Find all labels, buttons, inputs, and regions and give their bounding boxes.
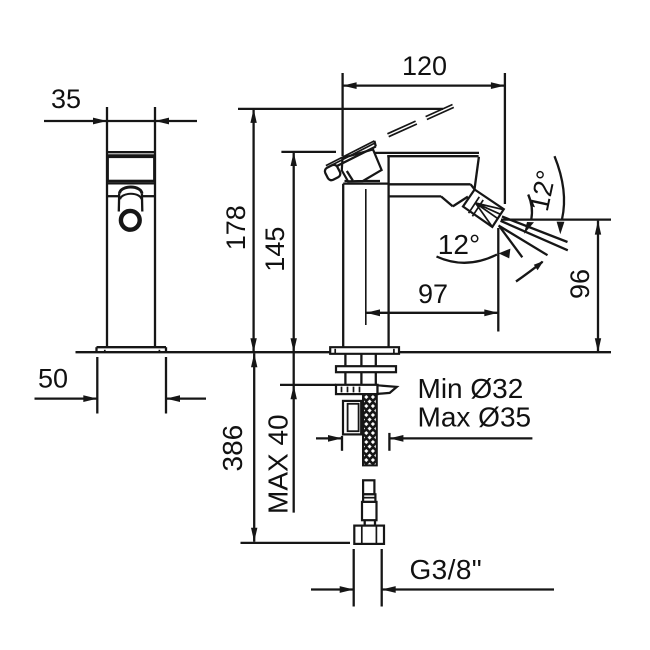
svg-text:120: 120 [402, 51, 447, 81]
svg-text:178: 178 [221, 205, 251, 250]
svg-text:12°: 12° [438, 229, 480, 260]
svg-text:96: 96 [565, 269, 595, 299]
svg-text:35: 35 [51, 84, 81, 114]
svg-text:97: 97 [418, 279, 448, 309]
svg-text:Min Ø32: Min Ø32 [418, 373, 524, 404]
svg-text:386: 386 [217, 425, 248, 472]
svg-text:Max Ø35: Max Ø35 [418, 402, 532, 433]
svg-text:145: 145 [260, 227, 290, 272]
svg-text:MAX 40: MAX 40 [263, 414, 294, 514]
svg-text:50: 50 [38, 364, 68, 394]
svg-text:G3/8": G3/8" [410, 554, 483, 585]
